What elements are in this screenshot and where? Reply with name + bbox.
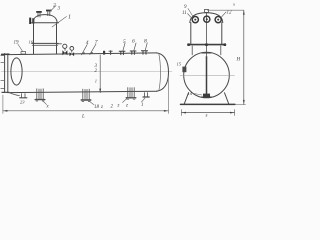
coupling b on top	[91, 52, 93, 54]
support S1	[35, 89, 45, 101]
diameter arrowhead	[99, 89, 101, 93]
shell bottom line	[8, 91, 158, 92]
right head weld seam	[159, 54, 161, 90]
valve V1 handwheel	[63, 44, 67, 48]
nozzle N1 on top	[119, 51, 125, 54]
support S2	[81, 89, 91, 101]
callout 20 leader	[43, 101, 47, 105]
svg-text:19: 19	[14, 41, 20, 46]
shell corner dark top	[2, 53, 9, 55]
end standpipe left wall	[190, 23, 192, 45]
end standpipe right wall	[221, 23, 223, 45]
svg-text:L: L	[81, 115, 85, 120]
saddle end view right side	[225, 93, 229, 104]
callout 6 leader	[134, 43, 136, 51]
nozzle on tank top left	[21, 52, 26, 54]
valve V2 body	[70, 52, 75, 56]
small fitting x104	[103, 51, 105, 55]
manhole ellipse on left head	[11, 58, 22, 85]
svg-text:18: 18	[94, 105, 100, 110]
length dim arrow left	[3, 110, 8, 112]
shell top line	[8, 53, 158, 55]
width dim arrow right	[230, 112, 235, 114]
nozzle N3 on top	[141, 51, 147, 54]
end dome	[190, 13, 223, 23]
height dim top line	[208, 9, 244, 11]
flange bolt right	[224, 43, 226, 46]
dome nozzle B	[47, 11, 49, 15]
standpipe dome head	[33, 15, 57, 23]
standpipe girth flange	[32, 42, 58, 44]
shell top cap fitting	[202, 52, 211, 54]
side stub on circle left	[182, 67, 186, 73]
base line extension	[235, 103, 246, 105]
end dome flange circle mid	[204, 16, 210, 22]
callout 1 leader	[52, 17, 67, 28]
length dim extension right	[167, 76, 169, 114]
svg-text:s: s	[206, 114, 208, 119]
valve V2 stem	[71, 51, 73, 53]
svg-text:x: x	[232, 2, 235, 7]
svg-text:4: 4	[86, 39, 89, 46]
svg-text:5: 5	[123, 39, 126, 45]
bottom drain end view	[203, 94, 210, 97]
height dim arrow bottom	[243, 100, 245, 105]
saddle end view left side	[184, 93, 188, 104]
svg-text:z: z	[100, 105, 103, 110]
svg-text:8: 8	[144, 38, 147, 44]
height dim vertical line	[243, 10, 245, 104]
dip pipe arrowhead	[206, 57, 208, 61]
height dim arrow top	[243, 10, 245, 15]
svg-text:1: 1	[68, 15, 71, 21]
callout 5 leader	[123, 43, 125, 51]
length dimension line	[3, 110, 169, 112]
length dim extension left	[2, 95, 4, 114]
left flange ring	[4, 54, 6, 93]
coupling a on top	[83, 52, 85, 54]
svg-text:1: 1	[95, 79, 97, 84]
diameter dimension line	[99, 55, 101, 93]
gauge stub from standpipe	[57, 43, 62, 45]
flange bolt center	[205, 43, 207, 46]
callout 7 leader	[90, 44, 96, 55]
lower neck right	[220, 46, 222, 55]
svg-text:2: 2	[53, 3, 56, 9]
callout 11 leader	[188, 14, 193, 19]
callout 2 leader	[51, 6, 57, 12]
support S3	[126, 88, 136, 100]
right dished head	[157, 53, 169, 91]
valve V1 body	[62, 50, 67, 55]
end dome flange circle left	[192, 17, 198, 23]
svg-text:16: 16	[29, 40, 34, 45]
svg-text:z: z	[125, 104, 128, 109]
bottom drain elbow	[9, 93, 20, 96]
end view circle	[184, 52, 230, 98]
end view vertical centerline / dip pipe	[206, 13, 208, 58]
standpipe left wall	[33, 23, 35, 54]
bottom drain nozzle	[20, 94, 27, 98]
apex stub	[205, 9, 209, 12]
flange bolts	[1, 55, 5, 57]
dome base flange line	[32, 22, 59, 24]
nozzle N2 on top	[130, 51, 136, 54]
end girth flange	[188, 44, 226, 46]
lower neck left	[191, 46, 193, 55]
callout 8 leader	[145, 43, 147, 51]
width dim tick left	[181, 110, 183, 116]
svg-text:6: 6	[132, 39, 135, 45]
svg-text:23: 23	[20, 100, 25, 105]
vessel centerline (side view)	[1, 70, 172, 72]
callout 12 leader	[222, 12, 227, 17]
callout 18 leader	[89, 101, 94, 105]
saddle base line	[181, 103, 236, 105]
width dim arrow left	[182, 112, 187, 114]
flange bolt left	[187, 43, 189, 46]
end view horizontal centerline	[180, 75, 235, 77]
width dim line	[182, 112, 235, 114]
callout 19 leader	[18, 44, 23, 51]
end dome flange circle right	[215, 17, 221, 23]
side valve on dome left	[29, 18, 31, 24]
small fitting x110	[110, 51, 112, 55]
svg-text:7: 7	[95, 40, 98, 46]
callout 9 leader	[188, 9, 193, 17]
valve V2 handwheel	[70, 47, 74, 51]
svg-text:11: 11	[182, 11, 187, 16]
callout 22 leader	[123, 98, 128, 102]
length dim arrow right	[164, 110, 169, 112]
valve V1 stem	[64, 49, 66, 51]
svg-text:12: 12	[227, 11, 233, 16]
callout 17 leader	[142, 98, 146, 102]
svg-text:1: 1	[141, 103, 144, 108]
callout 4 leader	[82, 45, 88, 55]
svg-text:H: H	[236, 58, 241, 63]
standpipe right wall	[56, 23, 58, 54]
dome nozzle A	[37, 13, 39, 17]
callout 14 leader	[194, 94, 202, 96]
width dim tick right	[234, 110, 236, 116]
shell corner dark bottom	[2, 91, 9, 93]
svg-text:15: 15	[177, 62, 182, 67]
bottom right fitting	[143, 93, 149, 97]
svg-text:z: z	[117, 104, 120, 109]
